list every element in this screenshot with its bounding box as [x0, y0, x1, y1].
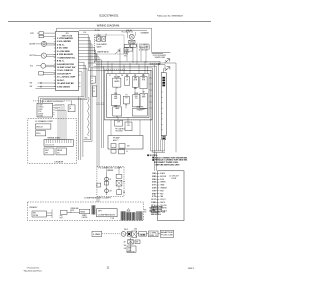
- svg-text:4 DC GND: 4 DC GND: [57, 47, 69, 50]
- svg-text:7 CUBE/CRUSH SOL: 7 CUBE/CRUSH SOL: [57, 57, 76, 59]
- wire: [126, 233, 127, 235]
- wire: [46, 64, 56, 66]
- bottom fuse box: [139, 232, 147, 237]
- door switch contacts: [37, 82, 45, 84]
- plug arrow symbol: [115, 50, 120, 54]
- ground chevron symbol: [165, 67, 170, 71]
- svg-text:GREEN: GREEN: [160, 182, 165, 184]
- svg-text:HOUSING: HOUSING: [116, 131, 124, 133]
- run capacitor triangle: [127, 209, 130, 212]
- wire: [163, 68, 165, 73]
- svg-text:2 SOL WATER: 2 SOL WATER: [57, 40, 72, 43]
- start relay box: [80, 209, 90, 214]
- svg-text:J1 CN1: J1 CN1: [95, 30, 100, 32]
- svg-text:BEFORE SERVICING UNIT: BEFORE SERVICING UNIT: [156, 165, 181, 167]
- svg-text:WIRING DIAGRAM: WIRING DIAGRAM: [97, 23, 120, 27]
- svg-text:TH 4: TH 4: [124, 55, 127, 57]
- svg-text:VIOLET: VIOLET: [160, 199, 165, 201]
- ice maker mold heater: [129, 40, 135, 43]
- wire: [71, 101, 73, 105]
- wire: [47, 54, 56, 56]
- wire: [43, 71, 55, 73]
- legend rows: [149, 172, 167, 212]
- winding block 4: [132, 212, 135, 220]
- wire elbows from board J15 to lower harness: [79, 62, 88, 97]
- EMI filter box: [32, 211, 47, 217]
- tall box bottom connector: [162, 136, 166, 140]
- connector J3: [68, 105, 75, 112]
- svg-text:N: N: [70, 212, 71, 214]
- fresh food section lower box: [108, 136, 143, 150]
- defrost compartment dashed box: [97, 167, 124, 197]
- svg-text:CCF: CCF: [117, 121, 120, 123]
- winding block 5: [137, 211, 142, 220]
- wire bus above compartment block: [88, 61, 176, 70]
- winding block 3: [127, 212, 131, 220]
- wire: [151, 150, 166, 152]
- wire: [47, 212, 53, 214]
- wire: [36, 88, 56, 90]
- bottom motor: [121, 232, 126, 237]
- wire: [160, 140, 162, 151]
- svg-text:LT: LT: [116, 88, 118, 90]
- svg-text:DMP: DMP: [114, 98, 117, 100]
- svg-text:J2 ICE: J2 ICE: [38, 104, 43, 106]
- svg-text:5 LOW SIDE: 5 LOW SIDE: [57, 51, 71, 53]
- wire: [119, 48, 121, 61]
- wire rails down to legend: [154, 152, 156, 171]
- ice crusher solenoid motor: [41, 63, 46, 68]
- wire: [117, 118, 119, 121]
- svg-text:SN: SN: [123, 192, 125, 194]
- svg-text:16 GND CHASSIS: 16 GND CHASSIS: [57, 85, 71, 88]
- defrost thermostat symbol: [158, 63, 160, 65]
- svg-text:# Functional Parts: # Functional Parts: [27, 267, 40, 270]
- bottom left terminal box: [92, 231, 102, 236]
- dispenser light switch: [39, 72, 44, 76]
- wire: [110, 120, 112, 136]
- freezer compartment outer enclosure: [105, 71, 153, 120]
- harness connector box upper: [91, 76, 96, 83]
- ice maker connector board J2: [37, 103, 53, 117]
- start relay element: [51, 210, 53, 219]
- legend bottom notes: [151, 207, 166, 217]
- dispenser motor: [41, 53, 46, 58]
- svg-text:1 HTR WATER: 1 HTR WATER: [57, 37, 74, 40]
- wire: [105, 34, 107, 37]
- svg-text:PLUG CN9: PLUG CN9: [161, 235, 173, 237]
- svg-text:11 SOL CUBE ICE: 11 SOL CUBE ICE: [57, 70, 74, 72]
- bottom control box: [149, 231, 159, 237]
- board J15 pin list rows: [54, 37, 76, 88]
- svg-text:6P: 6P: [91, 81, 93, 83]
- compressor compartment dashed box: [28, 202, 144, 221]
- svg-text:4 SHUT: 4 SHUT: [38, 113, 43, 115]
- wire: [46, 82, 56, 84]
- svg-text:DEF: DEF: [135, 96, 138, 98]
- cold control CCF box 1: [115, 120, 123, 126]
- cold control CCF box 2: [125, 122, 132, 131]
- svg-text:2P: 2P: [93, 91, 95, 93]
- svg-text:BROWN: BROWN: [160, 176, 166, 178]
- water valve solenoid 1: [97, 37, 101, 42]
- svg-text:13 +12VDC SUP: 13 +12VDC SUP: [57, 77, 76, 79]
- wire: [44, 32, 56, 34]
- svg-text:CN2: CN2: [85, 138, 88, 140]
- ice maker harness label block: [139, 43, 149, 51]
- ice maker fill motor: [129, 34, 134, 39]
- svg-text:4 CIRCUIT: 4 CIRCUIT: [139, 49, 149, 51]
- ice maker aux box 1: [44, 148, 54, 155]
- wire drops through bus into compartment block: [108, 61, 148, 73]
- wire bus from board to power entry: [57, 27, 152, 29]
- svg-text:FF ICEMAKER COMPT: FF ICEMAKER COMPT: [35, 120, 53, 123]
- svg-text:J3: J3: [69, 106, 71, 108]
- svg-text:9 AUGER MOTOR: 9 AUGER MOTOR: [57, 63, 75, 66]
- svg-text:ICE & WATER DISPENSER: ICE & WATER DISPENSER: [41, 100, 64, 103]
- svg-text:FILL: FILL: [57, 153, 60, 155]
- bottom switch box: [132, 231, 137, 237]
- wire: [118, 167, 120, 175]
- ice maker mold heater box: [35, 131, 45, 136]
- power plug symbol: [165, 59, 170, 63]
- svg-text:6 SW AUGER: 6 SW AUGER: [57, 53, 74, 56]
- compressor motor box: [97, 209, 118, 217]
- run winding block: [121, 211, 125, 220]
- svg-text:DEF: DEF: [142, 78, 145, 80]
- freezer compartment inner box: [107, 74, 149, 118]
- svg-text:12 YL: 12 YL: [151, 205, 155, 207]
- svg-text:CN 4P: CN 4P: [125, 49, 129, 51]
- dispenser solenoid: [39, 35, 44, 38]
- harness connector box lower: [93, 86, 97, 97]
- water valve solenoid 2: [102, 37, 106, 42]
- svg-text:14 N.C.: 14 N.C.: [57, 79, 66, 82]
- defrost heater terminal top: [105, 177, 109, 181]
- svg-text:115 VOLTS 60 HERTZ: 115 VOLTS 60 HERTZ: [153, 55, 167, 57]
- svg-text:SOL: SOL: [30, 65, 33, 67]
- bottom aux box 2: [135, 240, 140, 244]
- svg-text:TML 3: TML 3: [124, 229, 128, 231]
- svg-text:CODE: CODE: [171, 178, 177, 180]
- condenser fan connector box: [151, 207, 158, 213]
- freezer lamp lower: [113, 107, 122, 116]
- svg-text:* Non-Illustrated Parts: * Non-Illustrated Parts: [23, 270, 42, 273]
- twisted wire squiggle: [88, 97, 90, 136]
- bottom aux box 3: [127, 246, 136, 252]
- svg-text:1 MOLD: 1 MOLD: [38, 107, 45, 109]
- header rule: [8, 21, 211, 23]
- auger motor: [41, 41, 46, 46]
- left wire rails into lower compartments: [97, 61, 103, 166]
- wire: [67, 211, 80, 213]
- svg-text:11 WH: 11 WH: [151, 202, 157, 204]
- svg-text:BK: BK: [124, 241, 126, 243]
- lower box inner marks: [111, 144, 116, 148]
- svg-text:Publication No. 5995580647: Publication No. 5995580647: [157, 15, 184, 18]
- ice maker holder switch: [130, 44, 136, 47]
- svg-text:E23CS78HSS1: E23CS78HSS1: [100, 15, 120, 18]
- lower connector cluster: [111, 150, 116, 154]
- svg-text:COMPRESSOR: COMPRESSOR: [98, 215, 116, 217]
- svg-text:J4: J4: [126, 151, 128, 153]
- svg-text:PINK: PINK: [160, 190, 164, 192]
- control housing dashed divider: [105, 119, 153, 121]
- defrost sensor: [117, 190, 122, 195]
- svg-text:WHITE: WHITE: [160, 202, 165, 204]
- svg-text:CN2: CN2: [134, 229, 137, 231]
- svg-text:4P: 4P: [69, 109, 71, 111]
- svg-text:YELLOW: YELLOW: [160, 205, 167, 207]
- evaporator fan motor label (vertical): [162, 77, 165, 87]
- svg-text:3 N.C.: 3 N.C.: [57, 44, 66, 46]
- svg-text:OFF: OFF: [45, 153, 48, 155]
- ice maker module box: [35, 124, 51, 129]
- svg-text:GN: GN: [124, 248, 126, 250]
- svg-text:1 2 3 4 5 6 7 8: 1 2 3 4 5 6 7 8: [45, 144, 54, 146]
- harness bracket: [148, 44, 151, 50]
- dashed harness segment above block: [104, 68, 126, 70]
- svg-text:WH: WH: [124, 245, 126, 247]
- defrost limit label box: [97, 183, 101, 187]
- ice maker connector strip: [44, 139, 73, 146]
- dispenser control board J15 (box A): [56, 32, 79, 91]
- svg-text:J7: J7: [93, 88, 95, 90]
- power cord wires: [152, 51, 171, 53]
- svg-text:FZ: FZ: [125, 105, 127, 107]
- svg-text:TST: TST: [135, 98, 138, 100]
- wire: [96, 196, 98, 202]
- wire right rail long drop: [175, 63, 177, 152]
- svg-text:DEVICE: DEVICE: [82, 217, 88, 219]
- wire: [47, 42, 56, 44]
- bottom aux box 1: [128, 240, 134, 245]
- svg-text:PROT: PROT: [70, 210, 74, 212]
- svg-text:MTR 12: MTR 12: [124, 52, 130, 54]
- evaporator fan shroud tall box: [161, 73, 166, 136]
- svg-text:FUSE: FUSE: [140, 234, 146, 236]
- main box right edge stubs: [149, 78, 153, 108]
- svg-text:TH: TH: [125, 97, 127, 99]
- wire: [95, 37, 97, 39]
- svg-text:J2: J2: [109, 75, 111, 77]
- svg-text:10 DISP LIGHT SW: 10 DISP LIGHT SW: [57, 67, 76, 69]
- svg-text:COMPRESSOR COMPT: COMPRESSOR COMPT: [84, 198, 111, 200]
- svg-text:WATER VALVE: WATER VALVE: [97, 51, 109, 54]
- wire bundle from J2: [55, 104, 66, 140]
- left rail connector ticks: [96, 103, 104, 104]
- bottom relay box: [127, 232, 131, 236]
- dispenser heater resistor: [39, 32, 44, 35]
- svg-text:DH: DH: [110, 191, 112, 193]
- wiring notes text block: [147, 154, 188, 166]
- ice and water dispenser enclosure label: [33, 100, 41, 102]
- svg-text:8 N.C.: 8 N.C.: [57, 61, 66, 63]
- wire rails from board J15 to center block: [79, 35, 102, 142]
- wire drop from valve box: [96, 54, 98, 61]
- svg-text:CTRL: CTRL: [150, 233, 158, 235]
- svg-text:GROUND WIRE: GROUND WIRE: [151, 207, 163, 209]
- wire: [158, 233, 160, 235]
- bottom contact circles: [141, 234, 143, 236]
- svg-text:J3: J3: [91, 78, 93, 80]
- svg-text:SHUT: SHUT: [45, 150, 49, 152]
- svg-text:FF CONTROL: FF CONTROL: [116, 128, 126, 130]
- wire stub from board top: [56, 28, 58, 31]
- svg-text:S: S: [127, 78, 128, 80]
- defrost thermo fuse: [116, 180, 122, 186]
- svg-text:J1-4: J1-4: [83, 32, 86, 34]
- svg-text:MODULE: MODULE: [36, 126, 42, 128]
- defrost thermostat box: [116, 174, 122, 178]
- svg-text:15 LAMP DISP BD: 15 LAMP DISP BD: [57, 82, 75, 85]
- ice maker connector box: [124, 48, 133, 51]
- ice maker thermostat: [124, 44, 129, 47]
- svg-text:0911: 0911: [188, 268, 195, 270]
- water valve assembly dashed enclosure: [95, 35, 125, 54]
- svg-text:FILL TUBE: FILL TUBE: [139, 46, 149, 48]
- svg-text:C S R: C S R: [110, 218, 114, 220]
- bottom adapter box: [160, 230, 174, 237]
- defrost heater chain wire: [106, 172, 108, 195]
- svg-text:3 TH: 3 TH: [38, 111, 41, 113]
- harness elbow wires: [84, 139, 91, 141]
- wire power line drop: [151, 28, 153, 52]
- defrost heater element: [105, 181, 109, 185]
- svg-text:HTR 8: HTR 8: [124, 54, 128, 56]
- svg-text:BLUE: BLUE: [160, 179, 164, 181]
- svg-text:MOTOR: MOTOR: [30, 55, 37, 57]
- svg-text:RLY: RLY: [60, 217, 63, 219]
- compressor start winding block: [92, 205, 95, 214]
- wire color code legend box: [158, 171, 184, 221]
- wire: [116, 74, 143, 109]
- svg-text:12 DOOR SW FF: 12 DOOR SW FF: [57, 73, 72, 75]
- right wire rails of compartment block: [151, 63, 159, 152]
- wire drop to evaporator box: [164, 65, 166, 71]
- wire: [147, 233, 149, 235]
- svg-text:DT: DT: [110, 179, 112, 181]
- svg-text:LINE: LINE: [93, 234, 101, 236]
- tall box pin ticks: [161, 92, 162, 130]
- svg-text:ICE: ICE: [142, 94, 145, 96]
- svg-text:TF: TF: [123, 182, 125, 184]
- wire harness between dispenser and fresh food section: [39, 62, 88, 160]
- defrost heater terminal bottom: [105, 189, 109, 193]
- svg-text:BD 2: BD 2: [150, 235, 158, 237]
- svg-text:#SEE NOTE: #SEE NOTE: [126, 252, 134, 254]
- wire: [130, 237, 132, 252]
- rail inline connector marks: [150, 63, 160, 64]
- svg-text:CN: CN: [121, 75, 123, 77]
- ice maker aux box 2: [56, 148, 66, 155]
- svg-text:2: 2: [116, 79, 117, 81]
- fresh food compartment dashed enclosure: [28, 119, 77, 164]
- wire: [102, 233, 120, 235]
